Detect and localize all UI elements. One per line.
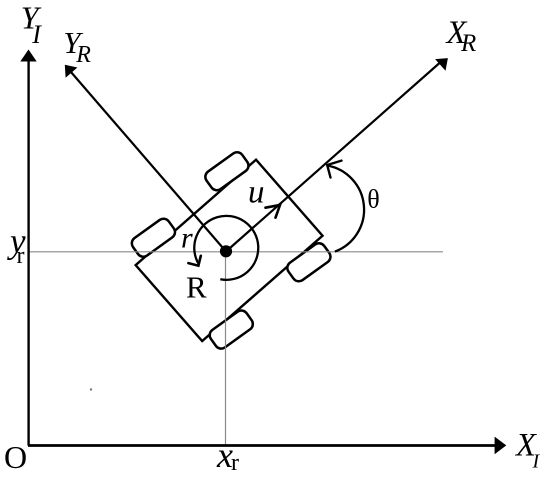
svg-text:r: r [181,222,193,255]
X_R axis line [226,60,444,252]
theta arrowhead [327,161,341,178]
Y_I axis [27,60,29,446]
svg-text:I: I [31,20,42,49]
rotation arc around dot [194,216,258,280]
u arrowhead on X_R [266,205,281,218]
wheel front-right [285,241,333,284]
svg-text:I: I [532,451,541,473]
r arrowhead [188,256,200,266]
svg-text:R: R [460,30,476,57]
grid line vertical x_r [225,252,227,445]
Y_R axis line [68,68,227,252]
svg-text:R: R [186,270,207,305]
svg-text:O: O [4,439,27,475]
wheel rear-right [207,308,255,351]
svg-text:r: r [17,243,25,269]
svg-text:θ: θ [367,184,379,213]
robot body [120,142,338,359]
speck [90,388,92,390]
svg-text:u: u [248,175,265,211]
center dot [220,245,232,257]
grid line horizontal y_r [29,251,443,253]
svg-text:r: r [231,450,239,476]
svg-text:R: R [75,42,91,68]
theta arc [327,166,364,252]
wheel front-left [203,150,251,193]
X_I axis [28,444,495,447]
wheel rear-left [129,216,177,259]
